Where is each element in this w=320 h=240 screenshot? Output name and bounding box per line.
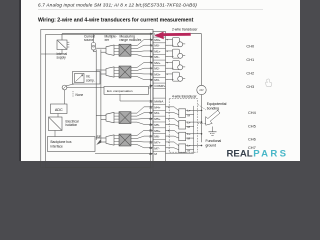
svg-text:L+: L+	[187, 132, 191, 136]
svg-text:2-wire transducer: 2-wire transducer	[172, 28, 198, 32]
svg-text:L+: L+	[187, 120, 191, 124]
svg-text:-: -	[167, 66, 168, 70]
svg-text:CH5: CH5	[248, 124, 256, 129]
svg-text:CH6: CH6	[248, 136, 256, 141]
svg-text:bonding: bonding	[207, 107, 219, 111]
svg-text:REAL: REAL	[227, 149, 253, 160]
svg-text:None: None	[76, 93, 84, 97]
svg-text:COMP+: COMP+	[154, 84, 165, 88]
svg-text:CH4: CH4	[248, 110, 257, 115]
svg-text:interface: interface	[51, 145, 63, 149]
svg-text:-: -	[168, 123, 169, 127]
svg-text:Functional: Functional	[206, 139, 222, 143]
svg-text:M1-: M1-	[154, 55, 159, 59]
svg-text:comp.: comp.	[86, 79, 95, 83]
svg-text:ADC: ADC	[55, 108, 63, 112]
svg-text:M4-: M4-	[154, 111, 159, 115]
svg-text:M: M	[188, 148, 191, 152]
svg-text:6.7 Analog input module SM 331: 6.7 Analog input module SM 331; AI 8 x 1…	[38, 2, 197, 7]
svg-text:M6+: M6+	[154, 129, 160, 133]
svg-text:-: -	[168, 134, 169, 138]
svg-text:M5+: M5+	[154, 117, 160, 121]
svg-text:PARS: PARS	[253, 149, 288, 160]
svg-text:Wiring: 2-wire and 4-wire tran: Wiring: 2-wire and 4-wire transducers fo…	[38, 17, 194, 23]
svg-text:M3-: M3-	[154, 78, 159, 82]
svg-text:-: -	[168, 111, 169, 115]
svg-text:M7-: M7-	[154, 146, 159, 150]
svg-text:supply: supply	[57, 55, 67, 59]
svg-text:ground: ground	[206, 144, 217, 148]
svg-text:-: -	[167, 43, 168, 47]
svg-text:M2+: M2+	[154, 61, 160, 65]
svg-text:CH2: CH2	[246, 70, 254, 75]
svg-text:range modules: range modules	[120, 38, 142, 42]
svg-text:CH0: CH0	[246, 44, 255, 49]
svg-text:Backplane bus: Backplane bus	[51, 140, 72, 144]
svg-text:M0-: M0-	[154, 44, 159, 48]
svg-text:M: M	[188, 137, 191, 141]
svg-text:-: -	[167, 55, 168, 59]
svg-text:M2-: M2-	[154, 67, 159, 71]
svg-text:+: +	[166, 37, 168, 41]
svg-text:SF: SF	[97, 135, 101, 139]
svg-text:-: -	[167, 78, 168, 82]
svg-text:+: +	[166, 60, 168, 64]
svg-text:M0+: M0+	[154, 38, 160, 42]
svg-text:xer: xer	[105, 38, 110, 42]
svg-text:L+: L+	[187, 109, 191, 113]
svg-text:CH3: CH3	[246, 84, 254, 89]
svg-text:+: +	[166, 72, 168, 76]
svg-text:M6-: M6-	[154, 135, 159, 139]
svg-text:M3+: M3+	[154, 72, 160, 76]
svg-text:24V: 24V	[199, 89, 204, 92]
svg-text:4-wire transducer: 4-wire transducer	[172, 94, 198, 98]
svg-text:M7+: M7+	[154, 140, 160, 144]
svg-text:M: M	[188, 113, 191, 117]
svg-text:M5-: M5-	[154, 123, 159, 127]
svg-text:L+: L+	[187, 144, 191, 148]
svg-text:M: M	[154, 152, 157, 156]
svg-text:source: source	[84, 38, 94, 42]
svg-text:isolation: isolation	[66, 123, 78, 127]
svg-text:+: +	[166, 49, 168, 53]
svg-text:Ext. compensation: Ext. compensation	[107, 89, 133, 93]
svg-text:-: -	[168, 146, 169, 150]
svg-text:M1+: M1+	[154, 49, 160, 53]
svg-text:MANA: MANA	[154, 100, 164, 104]
svg-text:M4+: M4+	[154, 105, 160, 109]
svg-text:M: M	[188, 125, 191, 129]
svg-text:CH1: CH1	[246, 57, 254, 62]
